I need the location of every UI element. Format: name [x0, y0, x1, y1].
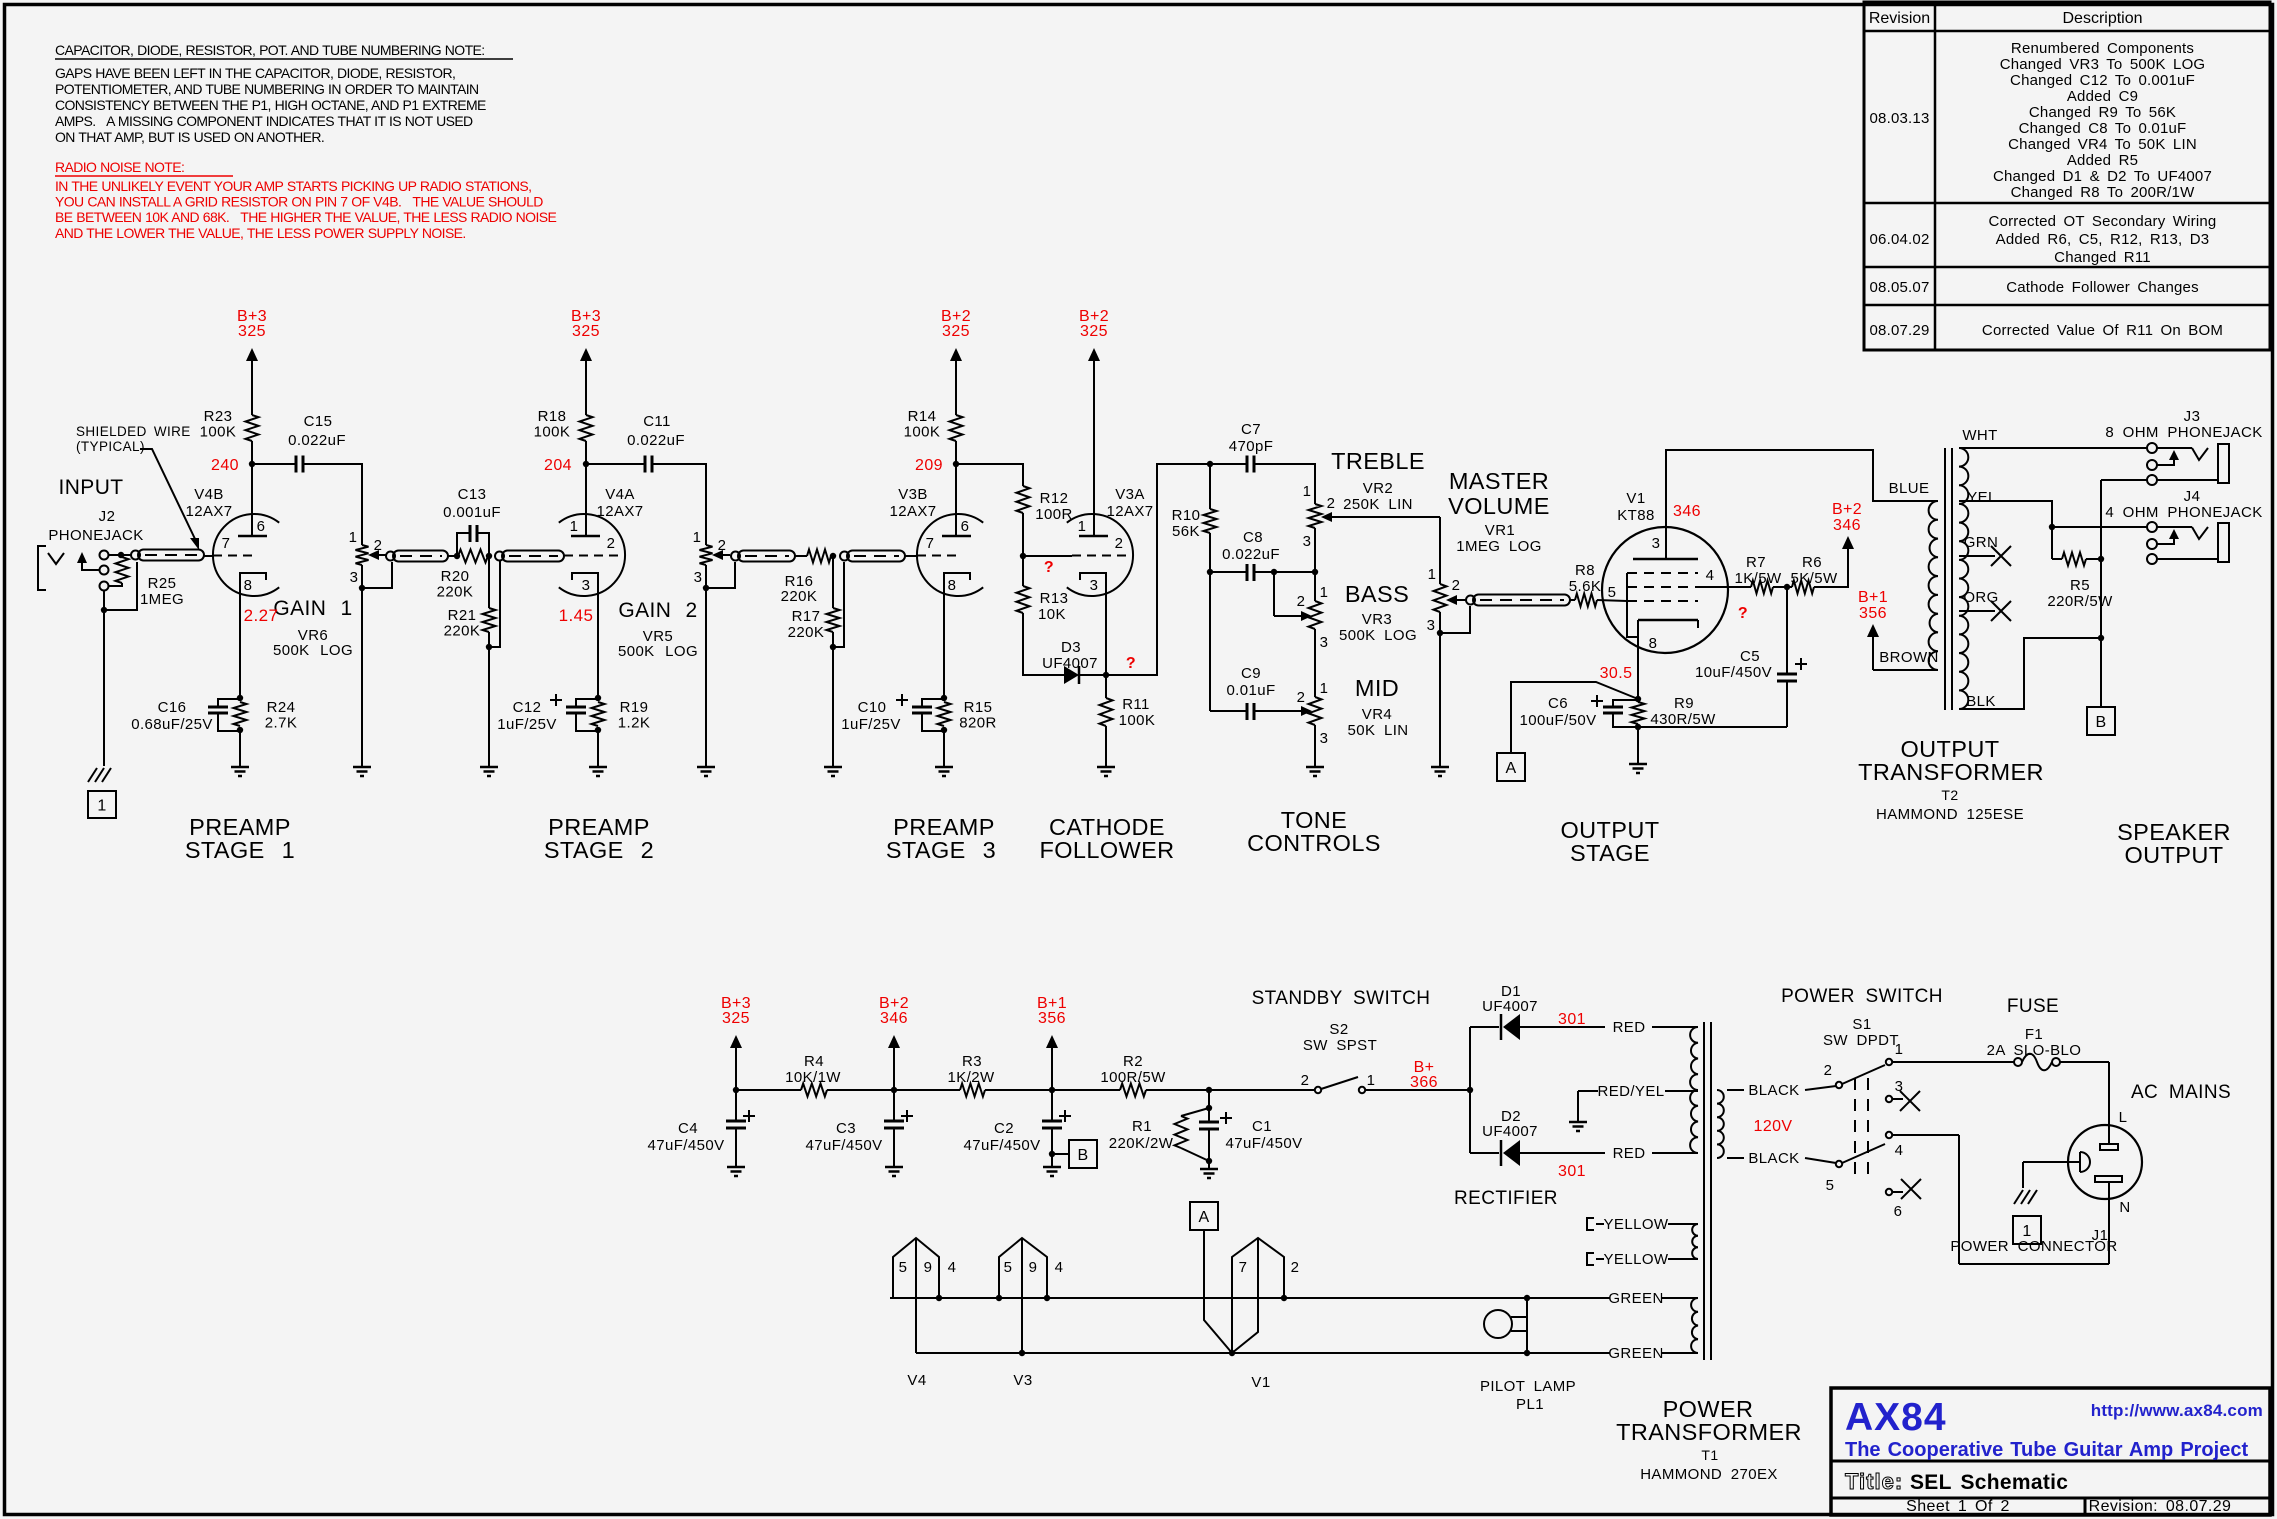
- svg-text:56K: 56K: [1172, 523, 1200, 540]
- wire YEL to J4: [1959, 501, 2147, 530]
- svg-text:PL1: PL1: [1516, 1396, 1544, 1413]
- svg-text:5K/5W: 5K/5W: [1790, 570, 1837, 587]
- switch S2: [1301, 1072, 1376, 1093]
- resistor R17: [788, 556, 840, 647]
- svg-text:12AX7: 12AX7: [1106, 503, 1153, 520]
- label OUTPUT STAGE: [1560, 817, 1659, 866]
- svg-text:(TYPICAL): (TYPICAL): [76, 439, 145, 454]
- svg-text:POWER SWITCH: POWER SWITCH: [1781, 986, 1943, 1007]
- svg-text:R11: R11: [1122, 696, 1150, 713]
- OT primary winding: [1929, 501, 1938, 670]
- svg-text:R15: R15: [964, 699, 993, 716]
- url http://www.ax84.com: [2091, 1401, 2263, 1420]
- svg-text:Added R6, C5, R12, R13, D3: Added R6, C5, R12, R13, D3: [1996, 231, 2210, 248]
- svg-text:10K: 10K: [1038, 606, 1066, 623]
- svg-text:100R/5W: 100R/5W: [1100, 1069, 1166, 1086]
- svg-text:CONTROLS: CONTROLS: [1247, 830, 1381, 856]
- svg-text:1: 1: [349, 529, 358, 546]
- label POWER CONNECTOR: [1950, 1238, 2117, 1255]
- svg-text:C8: C8: [1243, 529, 1263, 546]
- resistor R10: [1172, 464, 1217, 572]
- svg-text:0.01uF: 0.01uF: [1226, 682, 1275, 699]
- label GRN: [1964, 534, 1999, 551]
- svg-text:Revision: 08.07.29: Revision: 08.07.29: [2089, 1498, 2232, 1515]
- svg-text:1K/5W: 1K/5W: [1734, 570, 1781, 587]
- svg-text:VR3: VR3: [1362, 611, 1392, 628]
- phonejack J4: [2147, 522, 2229, 564]
- svg-text:R23: R23: [204, 408, 233, 425]
- svg-text:SHIELDED WIRE: SHIELDED WIRE: [76, 424, 191, 439]
- T1 secondary 120V: [1717, 1090, 1724, 1158]
- resistor R18: [534, 408, 593, 441]
- svg-text:1: 1: [693, 529, 702, 546]
- resistor R12: [1017, 486, 1073, 523]
- svg-text:1: 1: [97, 797, 106, 814]
- wire R17 to ground: [832, 647, 834, 766]
- label T2: [1876, 787, 2024, 823]
- svg-text:AC MAINS: AC MAINS: [2131, 1082, 2231, 1103]
- voltage ? (screen): [1738, 605, 1748, 622]
- svg-text:BLUE: BLUE: [1889, 480, 1930, 497]
- title block grid: [1831, 1388, 2270, 1515]
- svg-text:C13: C13: [458, 486, 487, 503]
- heater V4: [893, 1238, 956, 1353]
- svg-text:08.03.13: 08.03.13: [1870, 110, 1930, 127]
- svg-text:C7: C7: [1241, 421, 1261, 438]
- svg-text:V3B: V3B: [898, 486, 928, 503]
- pot VR5: [693, 529, 730, 586]
- label ORG: [1963, 589, 1998, 606]
- svg-text:N: N: [2119, 1199, 2130, 1216]
- svg-text:C6: C6: [1548, 695, 1568, 712]
- svg-text:325: 325: [942, 323, 970, 340]
- svg-text:1: 1: [1428, 566, 1437, 583]
- svg-text:325: 325: [722, 1010, 750, 1027]
- svg-text:301: 301: [1558, 1163, 1586, 1180]
- svg-text:1MEG: 1MEG: [140, 591, 184, 608]
- ground (R15): [935, 767, 953, 776]
- svg-text:R18: R18: [538, 408, 567, 425]
- capacitor C10: [841, 694, 947, 733]
- svg-text:C15: C15: [304, 413, 333, 430]
- svg-text:R5: R5: [2070, 577, 2090, 594]
- revision number: [2089, 1498, 2232, 1515]
- capacitor C1: [1199, 1108, 1303, 1164]
- svg-text:2: 2: [1291, 1259, 1300, 1276]
- svg-text:366: 366: [1410, 1074, 1438, 1091]
- svg-text:1: 1: [1320, 584, 1329, 601]
- label V4A: [596, 486, 643, 520]
- svg-text:2: 2: [1301, 1072, 1310, 1089]
- svg-text:220K: 220K: [444, 623, 481, 640]
- svg-text:GREEN: GREEN: [1608, 1345, 1663, 1362]
- phonejack J3: [2101, 443, 2229, 485]
- wire 209 to R12: [956, 464, 1023, 486]
- svg-text:470pF: 470pF: [1229, 438, 1274, 455]
- svg-text:R17: R17: [792, 608, 821, 625]
- label RECTIFIER: [1454, 1188, 1558, 1209]
- wire C2 to B tag: [1049, 1151, 1069, 1157]
- shielded wire (VR1 out): [1466, 595, 1570, 606]
- svg-text:V4: V4: [907, 1372, 926, 1389]
- B+2 arrow (rail): [879, 995, 909, 1090]
- svg-text:IN THE UNLIKELY EVENT YOUR AMP: IN THE UNLIKELY EVENT YOUR AMP STARTS PI…: [55, 178, 531, 194]
- svg-text:R4: R4: [804, 1053, 824, 1070]
- node R16/R17: [830, 553, 836, 559]
- wire plate to OT: [1666, 450, 1938, 559]
- resistor R7: [1734, 554, 1781, 594]
- svg-text:YELLOW: YELLOW: [1604, 1251, 1669, 1268]
- wire VR4 to ground: [1314, 725, 1316, 766]
- resistor R3: [894, 1053, 1052, 1097]
- svg-text:Changed R11: Changed R11: [2054, 249, 2151, 266]
- wire R19 to ground: [597, 730, 599, 766]
- resistor R15: [938, 699, 997, 732]
- voltage 301 (D1): [1558, 1011, 1586, 1028]
- svg-text:1: 1: [1895, 1041, 1904, 1058]
- svg-text:4: 4: [948, 1259, 957, 1276]
- tube V4A (12AX7): [559, 464, 625, 698]
- svg-text:5: 5: [1004, 1259, 1013, 1276]
- svg-text:9: 9: [924, 1259, 933, 1276]
- label V3: [1013, 1372, 1032, 1389]
- svg-text:VR2: VR2: [1363, 480, 1393, 497]
- svg-text:Changed VR3 To 500K LOG: Changed VR3 To 500K LOG: [2000, 56, 2206, 73]
- wire coax to V3B grid: [905, 555, 917, 557]
- svg-text:SW DPDT: SW DPDT: [1823, 1032, 1899, 1049]
- svg-text:STAGE 2: STAGE 2: [544, 837, 654, 863]
- label T1: [1640, 1447, 1778, 1483]
- svg-text:500K LOG: 500K LOG: [1339, 627, 1417, 644]
- AC plug J1: [2068, 1125, 2142, 1199]
- svg-text:220K: 220K: [781, 588, 818, 605]
- capacitor C11: [627, 413, 685, 473]
- label POWER TRANSFORMER: [1616, 1396, 1802, 1445]
- svg-text:47uF/450V: 47uF/450V: [806, 1137, 883, 1154]
- revision row 08.05.07: [1870, 279, 2199, 296]
- svg-text:Description: Description: [2062, 10, 2142, 27]
- label J1: [2092, 1227, 2109, 1244]
- ground (VR1): [1431, 767, 1449, 776]
- capacitor C3: [806, 1090, 914, 1166]
- svg-text:VR4: VR4: [1362, 706, 1392, 723]
- label RED (top): [1613, 1019, 1646, 1036]
- capacitor C6: [1520, 695, 1642, 730]
- wire VR5 pin3: [703, 562, 735, 591]
- svg-text:5: 5: [1826, 1177, 1835, 1194]
- svg-text:R24: R24: [267, 699, 296, 716]
- svg-text:TREBLE: TREBLE: [1331, 448, 1425, 474]
- svg-text:R9: R9: [1674, 695, 1694, 712]
- svg-text:J4: J4: [2184, 488, 2201, 505]
- svg-text:D3: D3: [1061, 639, 1081, 656]
- svg-text:820R: 820R: [959, 715, 996, 732]
- wire fuse to plug L: [2060, 1062, 2109, 1144]
- svg-text:TRANSFORMER: TRANSFORMER: [1616, 1419, 1802, 1445]
- svg-text:CAPACITOR, DIODE, RESISTOR, PO: CAPACITOR, DIODE, RESISTOR, POT. AND TUB…: [55, 42, 485, 58]
- label MID: [1355, 675, 1399, 701]
- svg-text:1: 1: [570, 518, 579, 535]
- svg-text:346: 346: [880, 1010, 908, 1027]
- capacitor C2: [964, 1090, 1072, 1166]
- svg-text:1.2K: 1.2K: [618, 715, 650, 732]
- voltage 120V: [1754, 1118, 1793, 1135]
- shielded wire (to V3B): [840, 551, 905, 562]
- label YEL: [1967, 489, 1997, 506]
- ground (C4): [727, 1167, 745, 1176]
- svg-text:C12: C12: [513, 699, 542, 716]
- wire g2 to R7: [1698, 586, 1751, 588]
- svg-text:100K: 100K: [534, 424, 571, 441]
- tube V4B (12AX7): [213, 464, 279, 698]
- svg-text:325: 325: [238, 323, 266, 340]
- svg-text:Added R5: Added R5: [2067, 152, 2138, 169]
- svg-text:STAGE: STAGE: [1570, 840, 1650, 866]
- pot VR1: [1427, 566, 1461, 634]
- tube V1 (KT88): [1602, 450, 1728, 699]
- svg-text:301: 301: [1558, 1011, 1586, 1028]
- svg-text:R1: R1: [1132, 1118, 1152, 1135]
- ground (R24): [231, 767, 249, 776]
- svg-text:4: 4: [1895, 1142, 1904, 1159]
- svg-text:C9: C9: [1241, 665, 1261, 682]
- label J4: [2105, 488, 2262, 521]
- svg-text:2: 2: [1327, 495, 1336, 512]
- wire ORG tap: [1959, 610, 1995, 612]
- wire BLACK top: [1727, 1082, 1836, 1099]
- svg-text:100K: 100K: [1119, 712, 1156, 729]
- svg-text:C1: C1: [1252, 1118, 1272, 1135]
- wire plug earth: [2023, 1162, 2080, 1188]
- wire R9 to ground: [1637, 727, 1639, 763]
- svg-text:7: 7: [1239, 1259, 1248, 1276]
- svg-text:2: 2: [718, 537, 727, 554]
- svg-text:08.07.29: 08.07.29: [1870, 322, 1930, 339]
- voltage 346 (plate): [1673, 503, 1701, 520]
- revision row 08.03.13: [1870, 40, 2213, 201]
- svg-text:2.7K: 2.7K: [265, 715, 297, 732]
- pot VR4 MID: [1297, 680, 1329, 747]
- note: radio noise (red text block): [55, 159, 556, 241]
- pot VR6: [349, 529, 386, 586]
- svg-text:0.001uF: 0.001uF: [443, 504, 501, 521]
- label S1: [1823, 1016, 1899, 1049]
- wire C7 to VR2: [1254, 464, 1315, 504]
- T1 green winding: [1691, 1298, 1698, 1353]
- svg-text:MID: MID: [1355, 675, 1399, 701]
- svg-text:C4: C4: [678, 1120, 698, 1137]
- chassis ground (mains): [2014, 1190, 2037, 1204]
- shielded wire (input): [131, 550, 204, 561]
- revision table grid: [1864, 2, 2270, 350]
- svg-text:2: 2: [1297, 689, 1306, 706]
- pot VR2 TREBLE: [1303, 483, 1336, 550]
- svg-text:POTENTIOMETER, AND TUBE NUMBER: POTENTIOMETER, AND TUBE NUMBERING IN ORD…: [55, 81, 479, 97]
- OT core: [1945, 448, 1952, 710]
- wire D1 to T1: [1520, 1026, 1698, 1028]
- capacitor C15: [288, 413, 346, 473]
- resistor R13: [1017, 556, 1069, 623]
- svg-text:R19: R19: [620, 699, 649, 716]
- resistor R11: [1100, 675, 1156, 729]
- label V3A: [1106, 486, 1153, 520]
- label FUSE: [2007, 996, 2059, 1017]
- wire VR2 pin3 to C8 row: [1314, 528, 1316, 572]
- capacitor C13: [443, 486, 501, 556]
- svg-text:4 OHM PHONEJACK: 4 OHM PHONEJACK: [2105, 504, 2262, 521]
- svg-text:SW SPST: SW SPST: [1303, 1037, 1377, 1054]
- svg-text:FOLLOWER: FOLLOWER: [1039, 837, 1174, 863]
- revision row 06.04.02: [1870, 213, 2217, 266]
- svg-text:06.04.02: 06.04.02: [1870, 231, 1930, 248]
- speaker common bus: [2100, 480, 2102, 707]
- svg-text:RECTIFIER: RECTIFIER: [1454, 1188, 1558, 1209]
- svg-text:5.6K: 5.6K: [1569, 578, 1601, 595]
- ground (R17): [824, 767, 842, 776]
- svg-text:3: 3: [1652, 535, 1661, 552]
- svg-text:100K: 100K: [904, 424, 941, 441]
- tag box A (output): [1497, 753, 1525, 781]
- heater V3: [996, 1238, 1064, 1356]
- wire jack tip to coax: [109, 552, 132, 558]
- svg-text:RADIO NOISE NOTE:: RADIO NOISE NOTE:: [55, 159, 184, 175]
- svg-text:RED/YEL: RED/YEL: [1598, 1083, 1665, 1100]
- svg-text:BE BETWEEN 10K AND 68K. THE: BE BETWEEN 10K AND 68K. THE HIGHER THE V…: [55, 209, 556, 225]
- svg-text:2: 2: [607, 535, 616, 552]
- svg-text:12AX7: 12AX7: [596, 503, 643, 520]
- svg-text:346: 346: [1833, 517, 1861, 534]
- svg-text:5: 5: [1608, 584, 1617, 601]
- svg-text:3: 3: [1320, 634, 1329, 651]
- voltage ? (cathode): [1126, 655, 1136, 672]
- svg-text:YOU CAN INSTALL A GRID RESISTO: YOU CAN INSTALL A GRID RESISTOR ON PIN 7…: [55, 194, 543, 210]
- shielded wire (VR6 out): [386, 551, 448, 562]
- svg-text:1: 1: [1078, 518, 1087, 535]
- label POWER SWITCH: [1781, 986, 1943, 1007]
- label V1 KT88: [1617, 490, 1654, 524]
- logo AX84: [1845, 1396, 1947, 1439]
- resistor R19: [592, 699, 651, 732]
- wire GRN tap: [1959, 555, 1995, 557]
- svg-text:120V: 120V: [1754, 1118, 1793, 1135]
- B+3 arrow (stage1): [237, 308, 267, 415]
- node C3: [891, 1087, 897, 1093]
- svg-text:430R/5W: 430R/5W: [1650, 711, 1716, 728]
- svg-text:F1: F1: [2025, 1026, 2043, 1043]
- title SEL Schematic: [1910, 1471, 2068, 1494]
- resistor R1: [1109, 1108, 1209, 1161]
- svg-text:7: 7: [222, 535, 231, 552]
- svg-text:7: 7: [926, 535, 935, 552]
- svg-text:6: 6: [961, 518, 970, 535]
- voltage ? (grid): [1044, 559, 1054, 576]
- svg-text:V1: V1: [1251, 1374, 1270, 1391]
- wire C11 to VR5: [652, 464, 706, 545]
- wire VR2 wiper from VR1: [1321, 512, 1440, 584]
- resistor R20: [437, 550, 488, 601]
- label N: [2119, 1199, 2130, 1216]
- B+2 arrow (OT): [1832, 501, 1862, 549]
- svg-text:Changed D1 & D2 To UF4007: Changed D1 & D2 To UF4007: [1993, 168, 2212, 185]
- wire S1 pin1 to fuse: [1893, 1061, 2014, 1063]
- label VR6: [273, 627, 353, 659]
- wire plug N to S1 pin4: [1893, 1135, 2109, 1264]
- svg-text:MASTER: MASTER: [1449, 468, 1549, 494]
- title label: [1845, 1469, 1903, 1494]
- label F1: [1987, 1026, 2082, 1059]
- resistor R9: [1632, 695, 1717, 728]
- wire S2 to B+ node: [1365, 1087, 1473, 1093]
- svg-text:220K: 220K: [788, 624, 825, 641]
- svg-text:1uF/25V: 1uF/25V: [841, 716, 901, 733]
- wire R13 to D3: [1023, 613, 1064, 675]
- svg-text:Sheet 1 Of 2: Sheet 1 Of 2: [1906, 1498, 2010, 1515]
- label V1 (heater): [1251, 1374, 1270, 1391]
- node R1/C1: [1206, 1087, 1212, 1111]
- wire C9 to VR4 wiper: [1254, 706, 1312, 716]
- svg-text:V1: V1: [1626, 490, 1645, 507]
- OT secondary winding: [1959, 448, 1968, 709]
- svg-text:204: 204: [544, 457, 572, 474]
- svg-text:220K: 220K: [437, 584, 474, 601]
- svg-text:STAGE 1: STAGE 1: [185, 837, 295, 863]
- resistor R5: [2047, 527, 2113, 610]
- svg-text:L: L: [2119, 1109, 2128, 1126]
- svg-text:Changed R8 To 200R/1W: Changed R8 To 200R/1W: [2011, 184, 2196, 201]
- svg-text:T1: T1: [1701, 1447, 1718, 1463]
- switch S1: [1824, 1041, 1921, 1220]
- label S2: [1303, 1021, 1377, 1054]
- svg-text:1: 1: [1320, 680, 1329, 697]
- svg-text:Revision: Revision: [1869, 10, 1930, 27]
- svg-text:BLACK: BLACK: [1748, 1150, 1799, 1167]
- chassis ground (input): [88, 768, 111, 782]
- label WHT: [1962, 427, 1997, 444]
- label PREAMP STAGE 3: [886, 814, 996, 863]
- svg-text:250K LIN: 250K LIN: [1343, 496, 1413, 513]
- svg-text:1.45: 1.45: [559, 606, 594, 625]
- svg-text:R20: R20: [441, 568, 470, 585]
- wire R21 to ground: [488, 647, 490, 766]
- label V4B: [185, 486, 232, 520]
- label BASS: [1345, 581, 1409, 607]
- sheet number: [1906, 1498, 2010, 1515]
- svg-text:UF4007: UF4007: [1042, 655, 1098, 672]
- voltage 1.45: [559, 606, 594, 625]
- label J2: [48, 508, 143, 544]
- shielded wire (VR5 out): [731, 551, 795, 562]
- node R20/R21: [486, 553, 492, 559]
- svg-text:STAGE 3: STAGE 3: [886, 837, 996, 863]
- svg-text:220K/2W: 220K/2W: [1109, 1135, 1174, 1152]
- svg-text:Changed R9 To 56K: Changed R9 To 56K: [2029, 104, 2176, 121]
- svg-text:C5: C5: [1740, 648, 1760, 665]
- wire V4B cathode node: [237, 695, 243, 701]
- label BROWN: [1879, 649, 1939, 666]
- resistor R16: [781, 550, 831, 606]
- svg-text:3: 3: [1090, 577, 1099, 594]
- svg-text:GREEN: GREEN: [1608, 1290, 1663, 1307]
- svg-text:B: B: [2095, 714, 2106, 731]
- svg-text:C2: C2: [994, 1120, 1014, 1137]
- svg-text:0.68uF/25V: 0.68uF/25V: [131, 716, 213, 733]
- svg-text:R12: R12: [1040, 490, 1069, 507]
- svg-text:YELLOW: YELLOW: [1604, 1216, 1669, 1233]
- svg-text:V3: V3: [1013, 1372, 1032, 1389]
- label VR4: [1348, 706, 1409, 739]
- svg-text:V3A: V3A: [1115, 486, 1145, 503]
- label RED (bottom): [1613, 1145, 1646, 1162]
